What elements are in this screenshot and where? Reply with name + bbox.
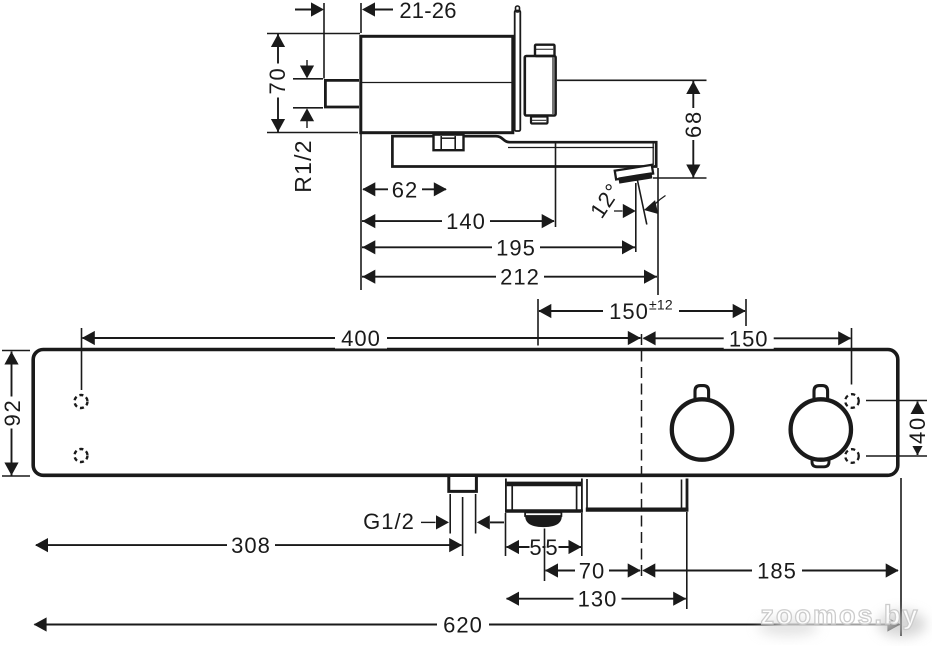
svg-text:150: 150 <box>609 299 649 324</box>
svg-text:150: 150 <box>729 326 769 351</box>
dim text 308 <box>227 535 275 556</box>
stub ext line left <box>449 494 451 534</box>
dim text 150pm12 <box>603 299 679 322</box>
svg-text:zoomos.by: zoomos.by <box>760 600 919 630</box>
extension line spout outlet x635.8 <box>635 183 637 252</box>
angle 12 arrow right <box>614 210 623 212</box>
dim text 40 rotated <box>907 414 929 446</box>
dim text 140 <box>442 211 490 232</box>
dim text 68 rotated <box>682 108 704 140</box>
aerator outlet nozzle <box>615 165 654 184</box>
dim text 150 <box>724 328 774 349</box>
left mounting hole top dashed <box>75 395 88 408</box>
svg-text:195: 195 <box>496 235 536 260</box>
dim 62 line <box>363 188 446 190</box>
right hole bottom dashed <box>845 449 859 463</box>
dim 620 ext right x901 <box>900 478 902 636</box>
dim 212 line <box>362 276 657 278</box>
dim text 185 <box>752 560 802 581</box>
wall plate top cap <box>516 6 520 12</box>
svg-text:400: 400 <box>341 326 381 351</box>
left knob circle <box>672 399 732 459</box>
dim 620 line <box>35 624 900 626</box>
stub ext line right <box>475 494 477 534</box>
dim 400 ext line x81.5 <box>81 328 83 390</box>
spout right edge inner line <box>652 143 654 165</box>
shower pipe connector neck <box>525 512 561 516</box>
dim 308 arrows <box>35 538 48 552</box>
dim 68 ext bottom <box>653 177 707 179</box>
dim 195 line <box>362 246 635 248</box>
dim 70 extension line top <box>267 33 360 35</box>
svg-text:140: 140 <box>446 209 486 234</box>
extension line x555.5 <box>555 143 557 227</box>
dim 40 ext top <box>866 400 927 402</box>
dim 70 line bottom <box>546 570 641 572</box>
dim text 620 <box>437 614 489 635</box>
dim 68 line <box>692 81 694 178</box>
behind-wall top tab inner line <box>536 48 553 50</box>
dim 140 line <box>362 220 554 222</box>
G1/2 arrow right <box>421 521 436 523</box>
G1/2 arrow left <box>477 515 490 529</box>
dim 140 arrows <box>362 214 375 228</box>
left mounting hole bottom dashed <box>75 449 88 462</box>
dim 62 arrows <box>362 182 375 196</box>
mounting nut outer <box>434 135 464 151</box>
left knob top tab <box>695 386 709 401</box>
right hole top dashed <box>845 394 859 408</box>
shower outlet block bottom band <box>505 509 583 512</box>
right knob top tab <box>814 386 828 401</box>
flow direction line 12deg <box>637 180 646 225</box>
dim 130 line <box>507 598 686 600</box>
dim text 400 <box>335 328 387 349</box>
dim 400 line <box>83 337 641 339</box>
svg-text:±12: ±12 <box>649 297 673 313</box>
behind-wall bottom tab inner line <box>532 119 546 121</box>
dim 150 arrow left <box>643 331 656 345</box>
dim 40 ext bottom <box>866 455 927 457</box>
svg-text:130: 130 <box>578 587 618 612</box>
dim 55 arrows <box>506 540 519 554</box>
angle 12 arrow left tilted <box>642 200 658 217</box>
svg-text:70: 70 <box>579 559 605 584</box>
svg-text:620: 620 <box>443 613 483 638</box>
dim 400 arrow left <box>82 331 95 345</box>
dim 55 ext left <box>505 513 507 556</box>
watermark smudge right <box>878 611 926 637</box>
shower outlet block right edge <box>581 479 583 513</box>
dim 150pm12 arrows <box>538 304 551 318</box>
front body panel <box>33 350 898 476</box>
extension line body-left x361 lower <box>360 130 362 290</box>
dim 70 arrow up <box>271 34 285 47</box>
dim 92 arrows <box>4 352 18 365</box>
dim 70 arrow right centre <box>628 563 641 577</box>
behind-wall block body <box>525 56 556 116</box>
mounting nut inner top line <box>441 137 455 139</box>
svg-text:5: 5 <box>545 535 558 560</box>
mounting nut facet left <box>440 136 442 150</box>
dim 70 extension line bottom <box>267 132 358 134</box>
dim 70 line <box>277 34 279 132</box>
dim text 92 rotated <box>2 397 24 429</box>
dim 185 arrow right <box>886 563 899 577</box>
right lower block bottom band <box>586 508 689 512</box>
dim 185 arrow left centre <box>642 563 655 577</box>
dim 92 ext bottom <box>2 475 30 477</box>
dim 150pm12 line <box>539 310 745 312</box>
extension line body left edge top x361 <box>360 3 362 33</box>
dim text 212 <box>496 266 544 287</box>
shower outlet block inner right <box>576 486 578 510</box>
dim text 195 <box>492 237 540 258</box>
supply block small dim ext top <box>293 78 323 80</box>
stub center ext line <box>462 497 464 556</box>
svg-text:40: 40 <box>905 416 930 444</box>
dim 130 ext right x686.5 <box>686 512 688 609</box>
dim 21-26 leader right with arrow <box>362 2 375 16</box>
spout inner top line <box>508 147 654 149</box>
dim text 70 bottom <box>575 560 609 581</box>
dim 150pm12 ext right x746 <box>745 299 747 326</box>
dim 68 ext top <box>557 79 707 81</box>
dim 400 arrow right <box>628 331 641 345</box>
left knob tab base line <box>697 398 707 400</box>
dim 195 arrows <box>362 240 375 254</box>
shower outlet block thick top band <box>507 482 582 487</box>
right knob tab base line <box>816 398 826 400</box>
dim 92 line <box>11 352 13 476</box>
right lower block right edge <box>686 479 689 512</box>
svg-text:92: 92 <box>0 398 25 426</box>
centerline dashed <box>641 334 643 577</box>
svg-text:212: 212 <box>500 265 540 290</box>
supply block small dim ext bottom <box>293 107 323 109</box>
extension line wall-supply left edge x324 <box>323 3 325 79</box>
svg-text:R1/2: R1/2 <box>290 139 316 192</box>
shower pipe connector dome <box>525 516 562 527</box>
dim 150 arrow right <box>838 331 851 345</box>
behind-wall block right facet <box>552 58 554 115</box>
svg-text:308: 308 <box>231 533 271 558</box>
behind-wall block bottom tab <box>531 117 548 124</box>
oval center ext line <box>544 529 546 582</box>
svg-text:70: 70 <box>265 66 290 94</box>
dim 92 ext top <box>2 350 30 352</box>
mounting nut facet right <box>454 136 456 150</box>
svg-text:185: 185 <box>757 559 797 584</box>
dim 150 ext line x851.5 <box>851 328 853 385</box>
extension line spout right x658 <box>657 168 659 295</box>
dim 21-26 leader left <box>295 9 312 11</box>
mixer body side view <box>361 36 513 132</box>
watermark line fade <box>776 616 896 631</box>
dim 40 arrows <box>910 401 924 414</box>
dim 130 arrows <box>506 592 519 606</box>
svg-text:5: 5 <box>529 535 542 560</box>
supply block small dim arrow down <box>306 60 308 66</box>
shower outlet block left edge <box>505 479 507 513</box>
dim 150 line right <box>644 337 851 339</box>
dim 55 line <box>507 546 582 548</box>
mixer body interior line <box>362 82 512 84</box>
right knob bottom tab <box>812 458 829 467</box>
dim 150pm12 ext left x538 <box>537 299 539 346</box>
right lower block left edge <box>586 479 588 510</box>
dim 70 arrow down <box>271 119 285 132</box>
supply block small dim arrow up <box>306 121 308 128</box>
G half inch outlet stub <box>449 477 477 491</box>
dim 68 arrow up <box>686 81 700 94</box>
dim text 70 rotated <box>267 64 289 98</box>
dim text 130 <box>574 588 622 609</box>
dim 185 line <box>644 570 899 572</box>
dim 308 line <box>36 544 462 546</box>
dim 40 line <box>917 402 919 456</box>
wall plate vertical bar <box>515 11 521 132</box>
dim text 55 split <box>530 537 543 558</box>
behind-wall block top tab <box>535 45 555 56</box>
dim text 62 <box>388 179 422 200</box>
dim 55 ext right <box>581 513 583 556</box>
dim 212 arrows <box>362 270 375 284</box>
watermark smudge left <box>758 618 818 636</box>
dim 70 arrow left <box>545 563 558 577</box>
right knob circle <box>791 399 851 459</box>
svg-text:21-26: 21-26 <box>399 0 456 23</box>
svg-text:68: 68 <box>681 110 706 138</box>
dim 68 arrow down <box>686 165 700 178</box>
svg-text:G1/2: G1/2 <box>363 509 415 534</box>
svg-text:62: 62 <box>392 177 418 202</box>
wall supply block <box>325 80 359 107</box>
dim 620 arrows <box>34 617 47 631</box>
right lower block inner right line <box>681 480 683 508</box>
shower outlet block inner left <box>511 486 513 510</box>
spout escutcheon outline <box>392 136 656 166</box>
